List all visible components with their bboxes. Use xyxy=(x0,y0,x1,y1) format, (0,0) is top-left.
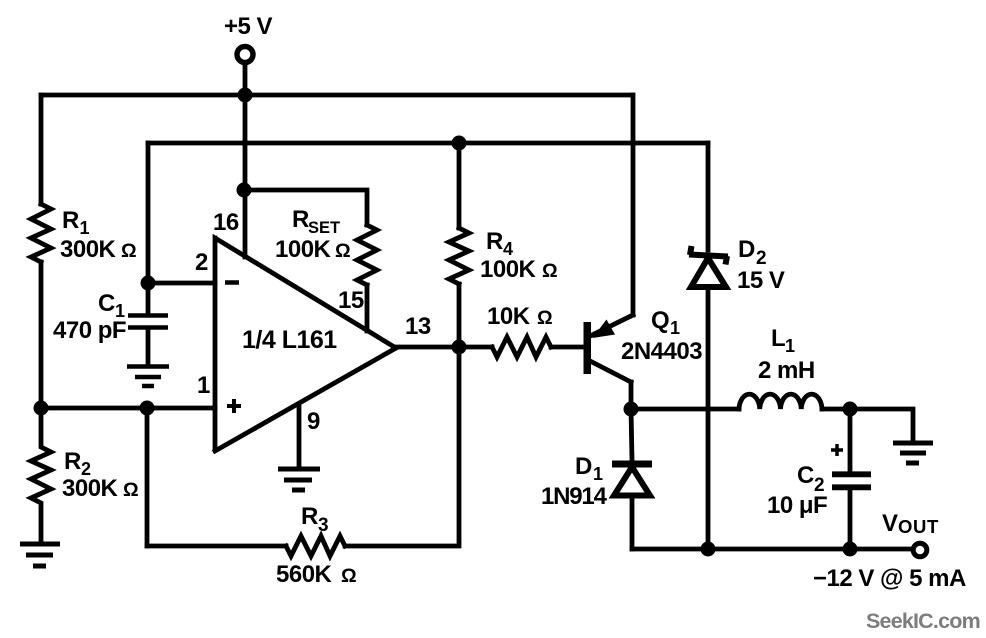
svg-text:1: 1 xyxy=(80,218,90,238)
svg-text:1: 1 xyxy=(593,464,603,484)
wire D1 bottom to output rail xyxy=(630,498,635,549)
svg-text:D: D xyxy=(575,453,592,480)
svg-text:3: 3 xyxy=(318,515,329,536)
label R3 xyxy=(301,503,329,536)
wire second rail xyxy=(148,141,708,146)
svg-text:Ω: Ω xyxy=(121,240,137,262)
minus symbol inverting input xyxy=(225,280,239,285)
wire L1 to ground corner xyxy=(822,409,913,441)
svg-text:V: V xyxy=(882,510,898,537)
label RSET xyxy=(292,206,340,237)
svg-text:1: 1 xyxy=(670,318,680,338)
svg-text:2: 2 xyxy=(756,248,767,269)
op-amp U1 1/4 L161 xyxy=(215,238,396,451)
label pin 15 xyxy=(338,287,364,314)
label C2 xyxy=(797,462,825,496)
wire output bottom rail xyxy=(632,547,911,552)
svg-text:R: R xyxy=(486,228,503,255)
svg-text:16: 16 xyxy=(213,209,239,236)
wire pin2 input xyxy=(148,281,215,286)
svg-text:560K: 560K xyxy=(276,561,333,588)
capacitor C1 xyxy=(128,283,168,364)
svg-text:Q: Q xyxy=(651,307,669,334)
label pin 2 xyxy=(195,249,208,276)
wire R4 bottom xyxy=(457,284,462,347)
junction pin16 RSET node xyxy=(237,183,252,198)
resistor R1 xyxy=(31,204,51,262)
svg-text:SeekIC.com: SeekIC.com xyxy=(866,609,980,633)
svg-text:D: D xyxy=(738,236,755,263)
svg-text:OUT: OUT xyxy=(898,516,939,537)
wire pin1 input xyxy=(41,406,215,411)
svg-text:+5 V: +5 V xyxy=(224,13,273,40)
label C1 value 470 pF xyxy=(53,317,126,344)
wire rail2 left drop to pin2 node xyxy=(146,143,151,283)
wire left branch vertical lower xyxy=(39,262,44,408)
ground below R2 xyxy=(20,544,60,566)
svg-text:2: 2 xyxy=(195,249,208,276)
wire pin 16 xyxy=(243,190,248,257)
plus polarity C2 xyxy=(831,444,843,456)
diode D2 zener xyxy=(689,246,728,287)
junction collector node xyxy=(624,402,639,417)
terminal VOUT xyxy=(913,543,927,557)
svg-text:1/4 L161: 1/4 L161 xyxy=(242,326,337,354)
svg-text:2N4403: 2N4403 xyxy=(621,338,702,365)
plus symbol non-inverting input xyxy=(227,399,241,413)
svg-text:Ω: Ω xyxy=(123,479,139,501)
label pin 1 xyxy=(197,372,210,399)
svg-text:300K: 300K xyxy=(62,475,119,502)
svg-text:Ω: Ω xyxy=(341,565,357,587)
wire base xyxy=(551,345,585,350)
label R4 xyxy=(486,228,513,259)
wire emitter up to rail xyxy=(631,95,636,315)
label pin 9 xyxy=(307,408,320,435)
svg-text:100K: 100K xyxy=(480,256,537,283)
label D2 value 15 V xyxy=(737,267,785,294)
inductor L1 xyxy=(739,394,822,409)
wire left branch vertical upper xyxy=(39,95,44,204)
svg-text:R: R xyxy=(292,206,309,233)
junction D2 output rail xyxy=(701,542,716,557)
wire feedback bottom left xyxy=(147,544,286,549)
label R3 value 560K xyxy=(276,561,357,588)
svg-text:2 mH: 2 mH xyxy=(758,357,815,384)
svg-text:1: 1 xyxy=(785,336,795,356)
wire feedback left drop xyxy=(145,408,150,546)
label L1 xyxy=(771,325,795,356)
label L1 value 2 mH xyxy=(758,357,815,384)
transistor Q1 2N4403 xyxy=(584,315,634,382)
wire collector down xyxy=(629,382,634,409)
junction pin1 left xyxy=(34,401,49,416)
svg-text:Ω: Ω xyxy=(542,260,558,282)
svg-text:Ω: Ω xyxy=(335,240,351,262)
junction output node xyxy=(452,340,467,355)
label output spec -12 V @ 5 mA xyxy=(813,565,966,592)
wire output pin 13 xyxy=(396,345,492,350)
label pin 13 xyxy=(405,313,431,340)
label R1 value 300K xyxy=(60,236,137,263)
junction C2 output rail xyxy=(843,542,858,557)
svg-text:10K: 10K xyxy=(487,303,531,330)
wire +5V stub down through rail to pin16 node xyxy=(243,66,248,190)
svg-text:SET: SET xyxy=(308,219,340,237)
label D1 type 1N914 xyxy=(541,483,608,510)
label R2 xyxy=(64,448,91,479)
wire D2 branch xyxy=(706,143,711,250)
wire top +5V rail xyxy=(41,93,632,98)
svg-text:R: R xyxy=(62,207,79,234)
junction C2 top xyxy=(843,402,858,417)
ground below C1 xyxy=(127,367,169,387)
wire D2 bottom down to output rail xyxy=(706,287,711,549)
svg-text:R: R xyxy=(301,503,318,530)
wire pin 15 xyxy=(365,285,370,331)
watermark SeekIC.com xyxy=(866,609,980,633)
svg-text:R: R xyxy=(64,448,81,475)
svg-text:1: 1 xyxy=(197,372,210,399)
svg-text:C: C xyxy=(98,290,115,317)
diode D1 xyxy=(612,464,652,496)
resistor base 10K xyxy=(492,337,551,357)
svg-text:15: 15 xyxy=(338,287,364,314)
svg-text:−12 V @ 5 mA: −12 V @ 5 mA xyxy=(813,565,966,592)
label D2 xyxy=(738,236,767,269)
junction pin1 feedback xyxy=(140,401,155,416)
wire pin 9 xyxy=(297,404,302,466)
label RSET value 100K xyxy=(275,236,351,263)
junction pin2 node xyxy=(141,276,156,291)
svg-text:L: L xyxy=(771,325,785,352)
resistor R4 xyxy=(449,228,469,284)
resistor R3 xyxy=(286,536,345,556)
svg-text:300K: 300K xyxy=(60,236,117,263)
label 10K xyxy=(487,303,553,330)
svg-text:1N914: 1N914 xyxy=(541,483,608,510)
junction +5V rail xyxy=(238,88,253,103)
svg-text:470 pF: 470 pF xyxy=(53,317,126,344)
svg-text:C: C xyxy=(797,462,814,489)
svg-text:100K: 100K xyxy=(275,236,332,263)
label R4 value 100K xyxy=(480,256,558,283)
junction rail2 R4 xyxy=(452,136,467,151)
resistor R2 xyxy=(31,408,51,542)
resistor RSET xyxy=(357,225,377,285)
label R1 xyxy=(62,207,90,238)
wire switch node horizontal xyxy=(631,407,739,412)
label R2 value 300K xyxy=(62,475,139,502)
wire RSET top xyxy=(244,190,367,225)
svg-text:9: 9 xyxy=(307,408,320,435)
label C2 value 10 uF xyxy=(767,492,827,519)
svg-text:10 μF: 10 μF xyxy=(767,492,827,519)
svg-text:15 V: 15 V xyxy=(737,267,785,294)
label op-amp 1/4 L161 xyxy=(242,326,337,354)
label D1 xyxy=(575,453,603,484)
label Q1 xyxy=(651,307,680,338)
ground right xyxy=(893,443,933,463)
label C1 xyxy=(98,290,125,321)
ground pin 9 xyxy=(278,469,320,490)
wire R4 top xyxy=(457,143,462,228)
label VOUT xyxy=(882,510,939,537)
terminal +5V xyxy=(237,47,253,63)
label Q1 type 2N4403 xyxy=(621,338,702,365)
wire feedback bottom right xyxy=(345,347,459,546)
label pin 16 xyxy=(213,209,239,236)
svg-text:Ω: Ω xyxy=(537,307,553,329)
capacitor C2 xyxy=(832,409,871,549)
wire D1 branch down xyxy=(631,409,632,460)
label +5 V xyxy=(224,13,273,40)
svg-text:13: 13 xyxy=(405,313,431,340)
